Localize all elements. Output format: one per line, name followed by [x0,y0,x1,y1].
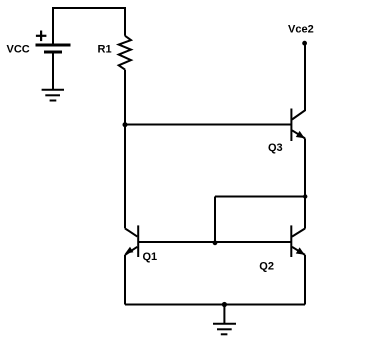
node Vce2 terminal dot [302,41,307,46]
battery V1 plus sign [36,31,47,42]
wire battery negative lead [52,53,54,89]
transistor Q2 bar [290,225,292,257]
transistor Q1 emitter arrow [125,247,133,254]
svg-text:Q3: Q3 [268,142,283,154]
node junction (left rail / Q3 base) [123,122,128,127]
transistor Q2 emitter arrow [296,247,305,254]
node junction (base rail) [213,240,218,245]
wire R1 top lead [124,7,126,36]
wire Q2 emitter lead [304,255,306,305]
transistor Q1 bar [137,225,139,257]
transistor Q3 emitter arrow [296,131,305,138]
node junction (bottom rail / ground) [222,302,227,307]
svg-text:Q2: Q2 [259,260,274,272]
svg-text:Vce2: Vce2 [288,24,314,36]
battery V1 (VCC source) [36,45,71,52]
transistor Q2 collector [292,229,305,237]
transistor Q1 emitter [125,247,137,255]
ground (battery) [42,90,64,101]
svg-text:R1: R1 [98,43,112,55]
wire battery positive lead [52,7,54,44]
wire middle horizontal (Q3 emitter node to bases) [215,196,305,198]
ground (bottom) [213,324,236,335]
transistor Q1 collector [125,228,137,236]
wire left rail (R1 bottom to Q1 collector) [124,70,126,229]
wire Q3 base (from left rail) [125,124,291,126]
wire Q1 emitter lead [124,255,126,305]
transistor Q3 bar [290,109,292,142]
transistor Q3 emitter [292,130,305,138]
transistor Q3 collector [292,43,305,119]
wire Q3 emitter to Q2 collector [304,138,306,228]
svg-text:VCC: VCC [7,43,30,55]
wire top (battery + to R1 top) [52,7,125,9]
transistor Q2 emitter [292,247,305,255]
wire vertical down to base rail [214,197,216,243]
node junction (Q3 emitter / middle wire) [303,194,307,198]
svg-text:Q1: Q1 [143,251,158,263]
wire base rail (Q1 base to Q2 base) [138,241,291,243]
wire ground stub [223,305,225,324]
resistor R1 [119,36,131,70]
wire bottom rail [125,304,305,306]
